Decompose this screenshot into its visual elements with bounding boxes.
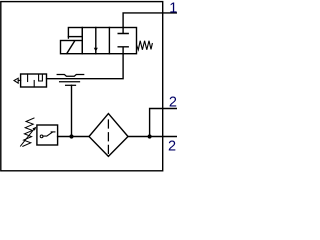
return spring S1 — [137, 41, 153, 50]
wire: branch stem down from coupling to junction — [71, 85, 73, 136]
exhaust triangle link — [18, 79, 20, 81]
solenoid Y1 box — [61, 41, 83, 54]
wire port 1: valve top stem up and right to edge — [123, 13, 177, 28]
dryer baffle from top 1 — [27, 74, 29, 82]
junction dot B — [148, 134, 152, 138]
svg-text:1: 1 — [169, 1, 177, 17]
pilot box Z1 — [68, 28, 82, 37]
dryer box D1 — [21, 74, 47, 87]
pressure switch fixed contact — [51, 131, 55, 133]
coupling symbol middle bar — [60, 81, 80, 83]
pressure switch contact lever — [43, 132, 53, 136]
filter F1 element dashed — [107, 120, 109, 153]
exhaust triangle — [14, 78, 18, 83]
valve V1 body — [82, 28, 136, 54]
valve V1 left box arrowhead — [94, 48, 98, 52]
pressure switch contact pivot circle — [40, 135, 43, 138]
valve V1 right box top blocked port T — [118, 28, 128, 34]
valve V1 right box bottom blocked port T — [118, 47, 128, 54]
coupling symbol upper notched plate — [57, 75, 83, 77]
pressure switch spring — [23, 118, 34, 146]
pilot box left edge overshoot — [67, 37, 69, 39]
valve V1 left box flow path — [95, 28, 97, 54]
solenoid Y1 diagonal — [67, 41, 75, 53]
svg-text:2: 2 — [169, 95, 177, 111]
pressure switch B1 box — [37, 125, 58, 145]
pressure switch adjust arrowhead — [32, 127, 36, 131]
dryer baffle from bottom — [33, 81, 35, 88]
pressure switch adjust arrow — [21, 129, 35, 147]
wire port 2 upper: corner from junction up and right to edge — [150, 109, 177, 137]
coupling symbol lower bar — [66, 84, 76, 86]
svg-text:2: 2 — [168, 138, 176, 154]
filter F1 diamond — [89, 114, 128, 157]
valve V1 box divider — [108, 28, 110, 54]
dryer U baffle — [39, 74, 43, 81]
junction dot A — [69, 134, 73, 138]
wire: output run y136.5 from switch to right edge — [58, 136, 177, 138]
wire: valve bottom stem down to horizontal run — [47, 54, 124, 79]
